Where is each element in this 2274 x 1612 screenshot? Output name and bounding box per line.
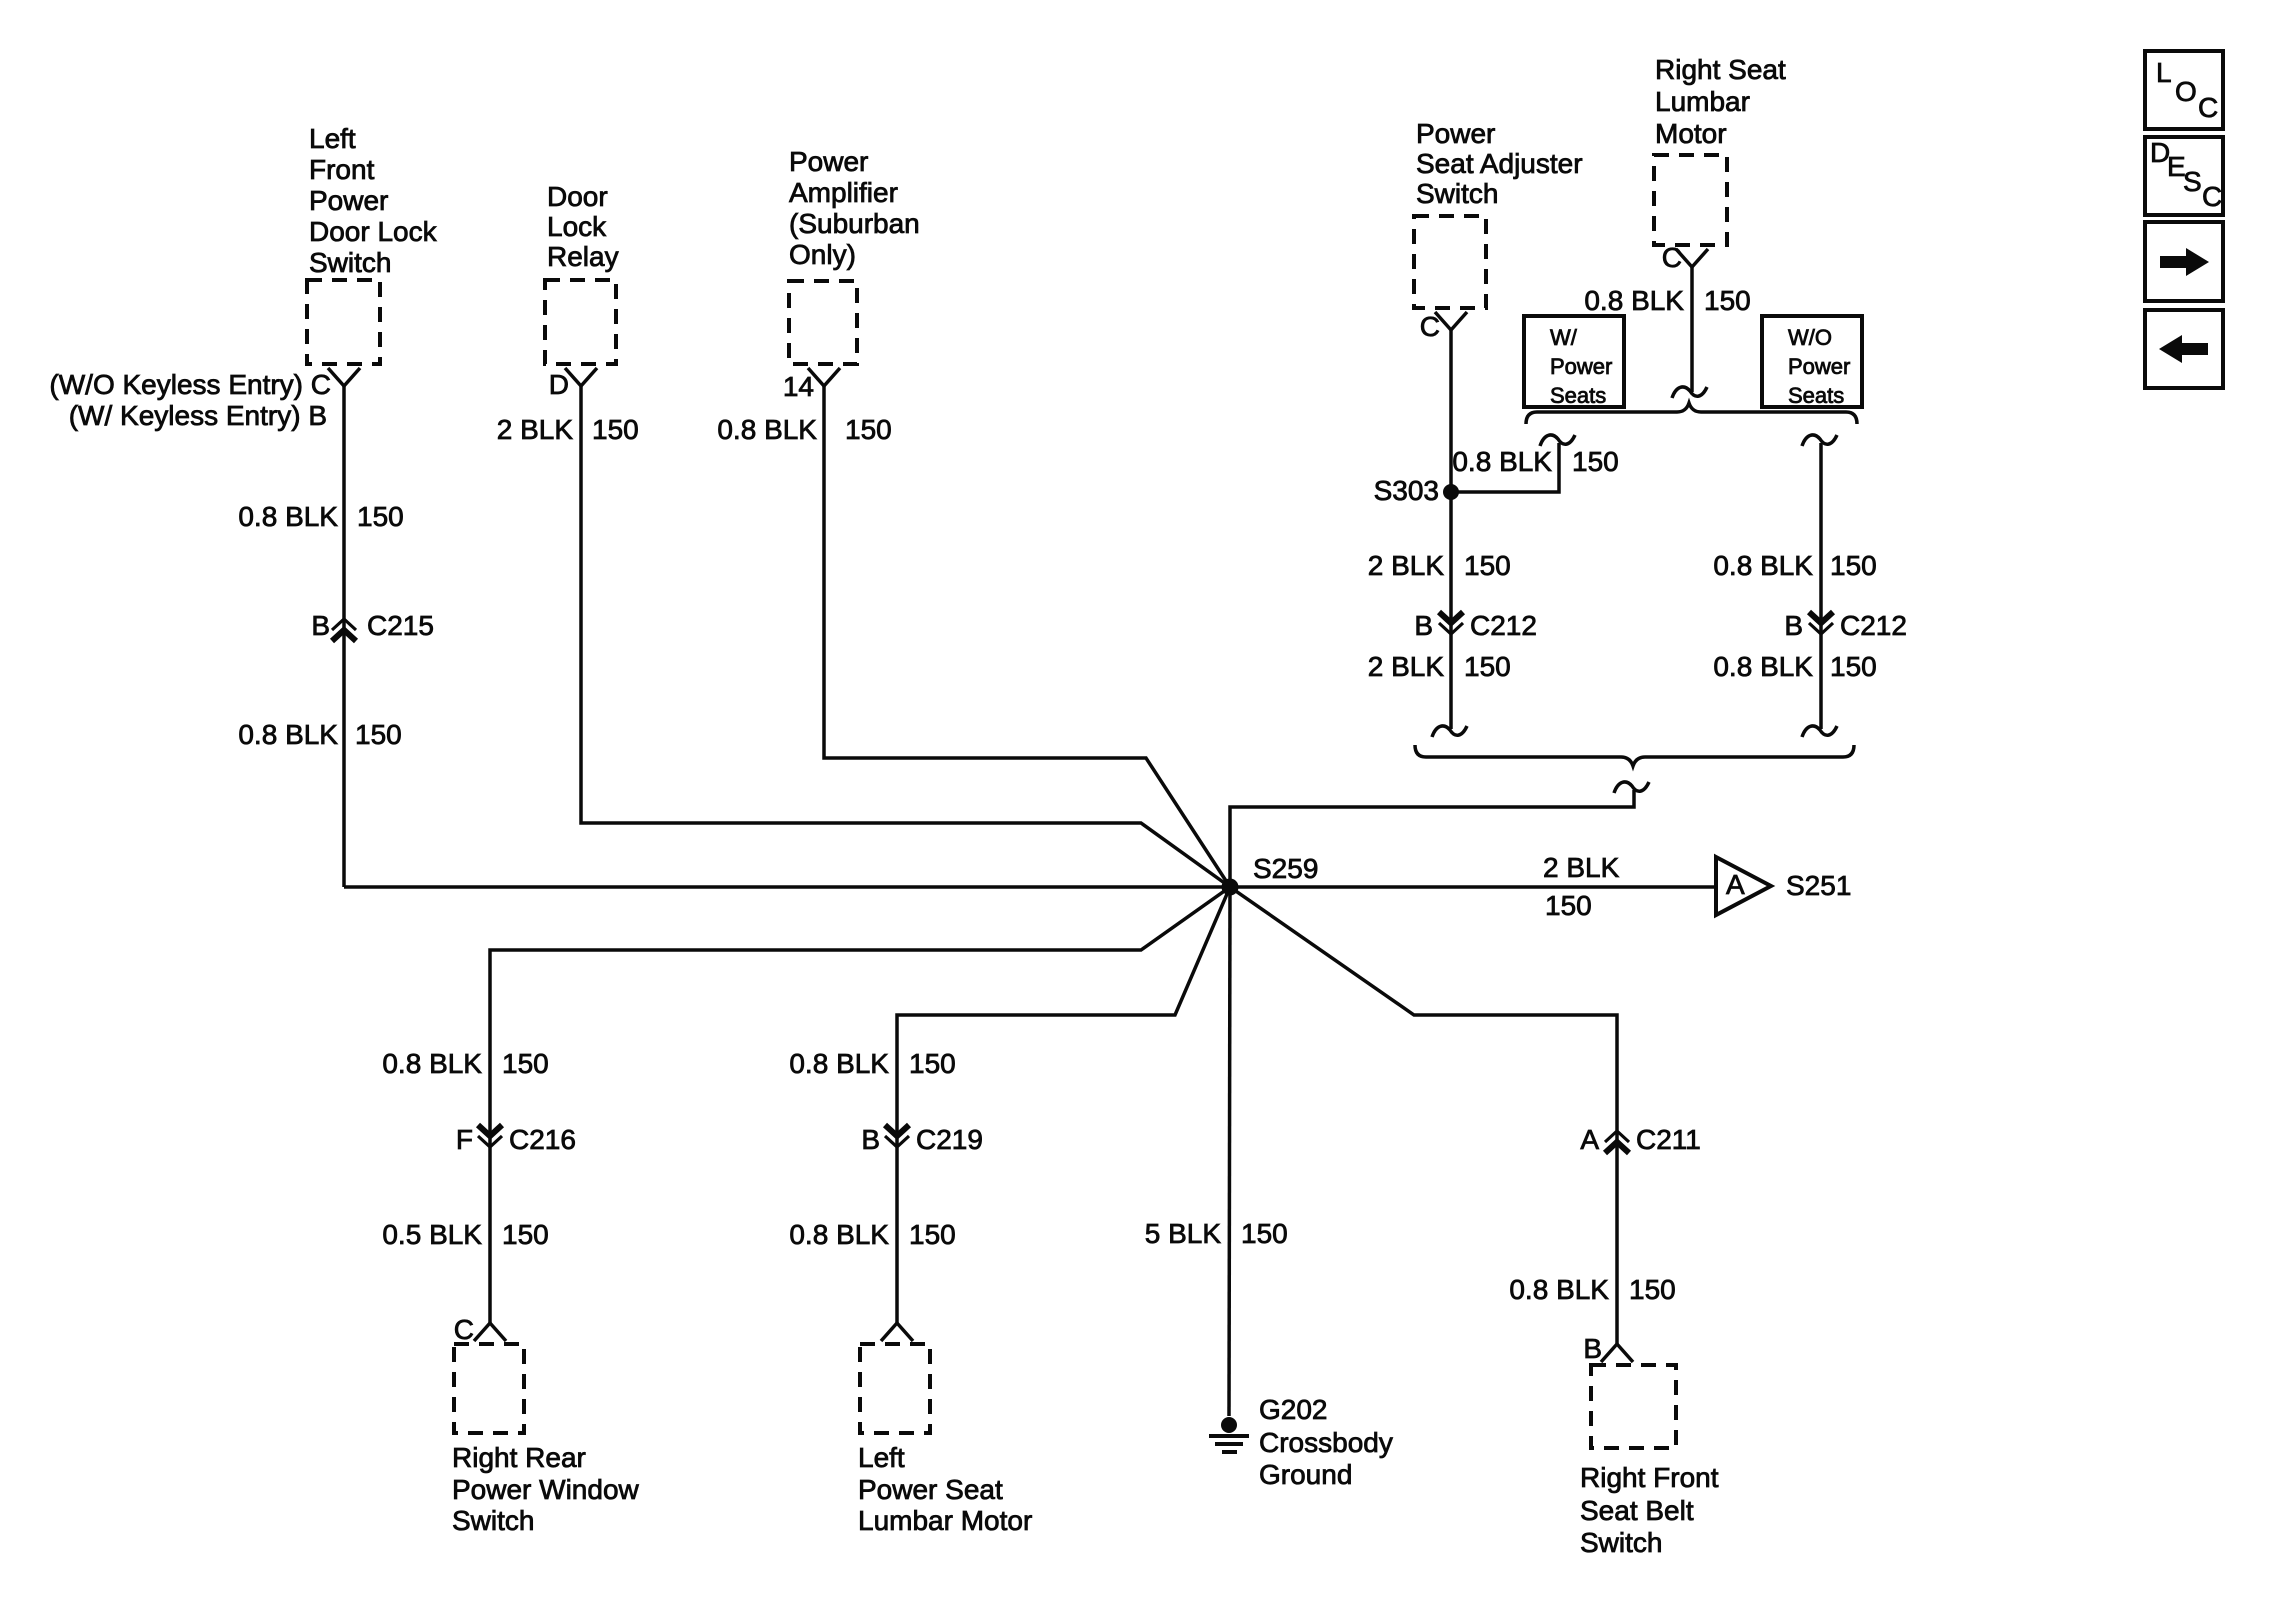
svg-text:A: A <box>1580 1124 1599 1155</box>
svg-text:0.8 BLK: 0.8 BLK <box>1713 550 1813 581</box>
svg-text:Relay: Relay <box>547 241 619 272</box>
svg-text:0.8 BLK: 0.8 BLK <box>382 1048 482 1079</box>
svg-text:0.8 BLK: 0.8 BLK <box>238 501 338 532</box>
svg-text:B: B <box>1414 610 1433 641</box>
svg-text:C: C <box>1662 242 1682 273</box>
svg-text:Motor: Motor <box>1655 118 1727 149</box>
svg-text:S251: S251 <box>1786 870 1851 901</box>
svg-text:150: 150 <box>1629 1274 1676 1305</box>
svg-text:C212: C212 <box>1470 610 1537 641</box>
svg-text:Door Lock: Door Lock <box>309 216 438 247</box>
svg-text:Switch: Switch <box>1580 1527 1662 1558</box>
svg-text:W/O: W/O <box>1788 325 1832 350</box>
svg-text:D: D <box>549 369 569 400</box>
svg-text:Switch: Switch <box>309 247 391 278</box>
svg-text:Left: Left <box>858 1442 905 1473</box>
svg-text:W/: W/ <box>1550 325 1578 350</box>
svg-text:0.8 BLK: 0.8 BLK <box>717 414 817 445</box>
svg-text:150: 150 <box>355 719 402 750</box>
svg-text:Switch: Switch <box>1416 178 1498 209</box>
svg-text:(Suburban: (Suburban <box>789 208 920 239</box>
svg-text:C211: C211 <box>1636 1124 1701 1155</box>
svg-text:150: 150 <box>502 1219 549 1250</box>
svg-text:Power: Power <box>1550 354 1612 379</box>
svg-text:150: 150 <box>1572 446 1619 477</box>
svg-text:Amplifier: Amplifier <box>789 177 898 208</box>
svg-text:Seat Belt: Seat Belt <box>1580 1495 1694 1526</box>
svg-text:L: L <box>2156 57 2172 88</box>
svg-text:B: B <box>1583 1333 1602 1364</box>
svg-text:Power: Power <box>1416 118 1495 149</box>
svg-text:Only): Only) <box>789 239 856 270</box>
svg-text:Seats: Seats <box>1788 383 1844 408</box>
svg-text:Power: Power <box>309 185 388 216</box>
svg-text:Left: Left <box>309 123 356 154</box>
svg-text:Lock: Lock <box>547 211 607 242</box>
svg-text:14: 14 <box>783 371 814 402</box>
svg-text:A: A <box>1726 869 1745 900</box>
svg-text:S303: S303 <box>1374 475 1439 506</box>
svg-text:B: B <box>1784 610 1803 641</box>
svg-text:Seat Adjuster: Seat Adjuster <box>1416 148 1583 179</box>
svg-text:C212: C212 <box>1840 610 1907 641</box>
svg-text:Power: Power <box>1788 354 1850 379</box>
svg-text:150: 150 <box>592 414 639 445</box>
svg-text:O: O <box>2175 76 2197 107</box>
svg-text:B: B <box>861 1124 880 1155</box>
svg-text:S259: S259 <box>1253 853 1318 884</box>
svg-text:0.8 BLK: 0.8 BLK <box>789 1048 889 1079</box>
svg-text:C: C <box>454 1314 474 1345</box>
svg-text:C: C <box>2198 92 2218 123</box>
svg-text:Front: Front <box>309 154 375 185</box>
svg-text:C: C <box>2202 181 2222 212</box>
svg-text:Right Front: Right Front <box>1580 1462 1719 1493</box>
svg-text:0.8 BLK: 0.8 BLK <box>238 719 338 750</box>
svg-text:0.8 BLK: 0.8 BLK <box>1452 446 1552 477</box>
svg-text:150: 150 <box>909 1048 956 1079</box>
svg-text:150: 150 <box>1830 550 1877 581</box>
svg-text:B: B <box>311 610 330 641</box>
svg-text:0.8 BLK: 0.8 BLK <box>1584 285 1684 316</box>
svg-text:C215: C215 <box>367 610 434 641</box>
svg-text:Lumbar Motor: Lumbar Motor <box>858 1505 1032 1536</box>
svg-text:G202: G202 <box>1259 1394 1328 1425</box>
svg-text:Seats: Seats <box>1550 383 1606 408</box>
svg-text:0.8 BLK: 0.8 BLK <box>1509 1274 1609 1305</box>
svg-text:(W/ Keyless Entry) B: (W/ Keyless Entry) B <box>69 400 327 431</box>
svg-text:Switch: Switch <box>452 1505 534 1536</box>
svg-text:150: 150 <box>1241 1218 1288 1249</box>
svg-text:F: F <box>456 1124 473 1155</box>
svg-text:2 BLK: 2 BLK <box>497 414 574 445</box>
svg-text:2 BLK: 2 BLK <box>1368 651 1445 682</box>
svg-text:150: 150 <box>909 1219 956 1250</box>
svg-text:Crossbody: Crossbody <box>1259 1427 1393 1458</box>
svg-text:Ground: Ground <box>1259 1459 1352 1490</box>
svg-text:2 BLK: 2 BLK <box>1368 550 1445 581</box>
svg-text:(W/O Keyless Entry) C: (W/O Keyless Entry) C <box>49 369 331 400</box>
svg-text:Power Seat: Power Seat <box>858 1474 1003 1505</box>
svg-text:150: 150 <box>357 501 404 532</box>
svg-text:150: 150 <box>1830 651 1877 682</box>
svg-text:Lumbar: Lumbar <box>1655 86 1750 117</box>
svg-text:S: S <box>2183 166 2202 197</box>
svg-text:0.8 BLK: 0.8 BLK <box>1713 651 1813 682</box>
svg-text:150: 150 <box>1464 651 1511 682</box>
svg-text:150: 150 <box>1464 550 1511 581</box>
svg-text:C219: C219 <box>916 1124 983 1155</box>
svg-text:0.8 BLK: 0.8 BLK <box>789 1219 889 1250</box>
svg-text:C216: C216 <box>509 1124 576 1155</box>
svg-text:150: 150 <box>1704 285 1751 316</box>
svg-text:150: 150 <box>1545 890 1592 921</box>
svg-text:0.5 BLK: 0.5 BLK <box>382 1219 482 1250</box>
svg-text:Door: Door <box>547 181 608 212</box>
svg-text:150: 150 <box>845 414 892 445</box>
svg-text:C: C <box>1420 311 1440 342</box>
svg-text:Right Seat: Right Seat <box>1655 54 1786 85</box>
svg-text:2 BLK: 2 BLK <box>1543 852 1620 883</box>
svg-text:150: 150 <box>502 1048 549 1079</box>
svg-text:Power: Power <box>789 146 868 177</box>
svg-text:Right Rear: Right Rear <box>452 1442 586 1473</box>
svg-text:Power Window: Power Window <box>452 1474 640 1505</box>
svg-text:5 BLK: 5 BLK <box>1145 1218 1222 1249</box>
